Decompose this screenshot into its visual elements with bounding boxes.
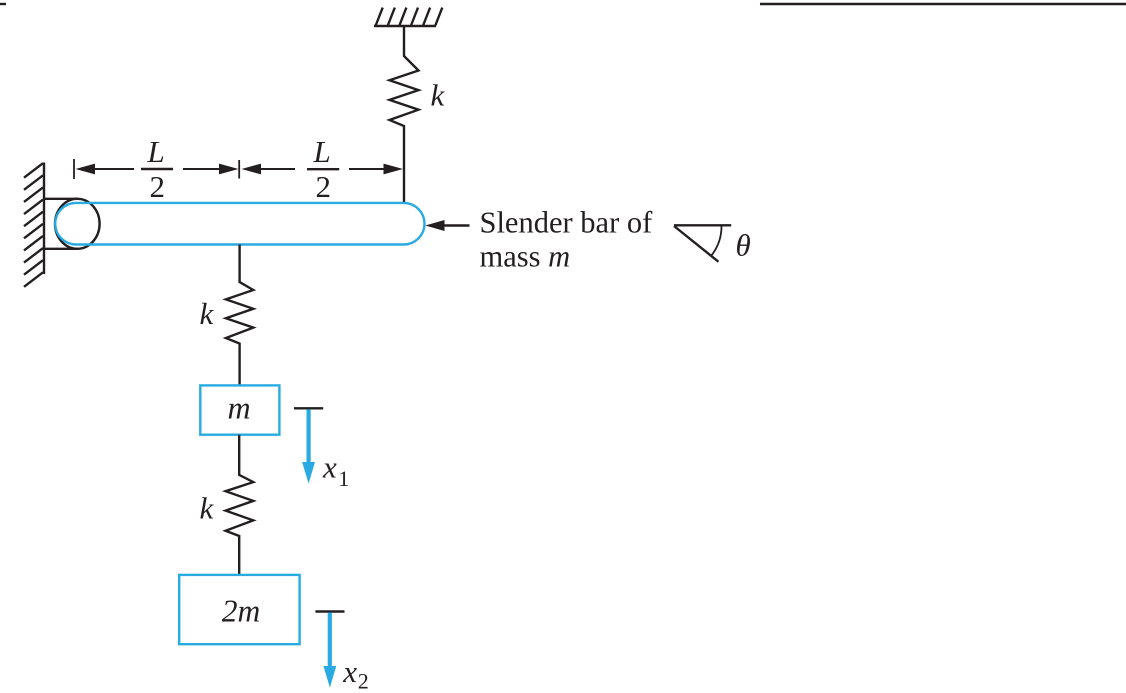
fraction bar L/2 (second) [307, 168, 339, 170]
spring k (lower, mass m to mass 2m) [226, 435, 254, 575]
svg-text:L: L [147, 134, 165, 169]
displacement arrow x2 (cyan) [323, 613, 336, 688]
dimension line segment [349, 168, 385, 170]
svg-text:1: 1 [338, 466, 349, 491]
svg-text:k: k [431, 78, 446, 113]
dimension middle tick [238, 160, 240, 179]
ceiling hatching [376, 8, 443, 26]
svg-text:m: m [228, 390, 251, 426]
angle arc [711, 226, 722, 256]
svg-text:k: k [200, 491, 215, 526]
pin bracket bottom line [43, 248, 78, 250]
dimension left tick [73, 159, 75, 179]
dimension arrow right (first span) [219, 164, 239, 175]
displacement arrow x1 (cyan) [302, 409, 315, 483]
page edge dash (top left) [0, 3, 6, 5]
pin bracket top line [43, 198, 78, 200]
svg-text:2: 2 [150, 169, 166, 204]
mass 2m box [179, 575, 299, 644]
dimension arrow right (second span, at spring line) [384, 164, 404, 175]
page header rule (top right) [760, 3, 1126, 5]
dimension line segment [183, 168, 220, 170]
spring k (middle, bar to mass m) [226, 245, 253, 386]
annotation arrow (points to bar right end) [425, 220, 444, 231]
svg-text:2: 2 [358, 669, 369, 693]
angle symbol horizontal line [674, 224, 731, 226]
spring k (top, ceiling to bar right end) [390, 26, 419, 202]
pin circle [55, 199, 100, 249]
datum line x2 [315, 610, 344, 612]
dimension arrow left (second span) [242, 164, 262, 175]
svg-text:k: k [200, 296, 215, 331]
angle symbol inclined line [674, 226, 718, 262]
svg-text:x: x [342, 654, 357, 689]
dimension line segment [94, 168, 134, 170]
svg-text:L: L [313, 134, 331, 169]
mass m box [200, 385, 279, 434]
svg-text:2m: 2m [222, 593, 260, 628]
ceiling support line [374, 25, 436, 28]
svg-text:Slender bar of: Slender bar of [480, 205, 654, 239]
svg-text:θ: θ [736, 228, 751, 263]
svg-text:x: x [322, 450, 337, 485]
svg-text:2: 2 [316, 169, 332, 204]
dimension line segment [260, 168, 295, 170]
fraction bar L/2 (first) [141, 168, 173, 170]
dimension arrow left (first span) [76, 164, 96, 175]
wall support line (left) [43, 163, 45, 275]
wall hatching [24, 163, 43, 287]
slender bar (stadium outline) [55, 203, 424, 245]
svg-text:mass m: mass m [480, 239, 571, 273]
datum line x1 [294, 407, 323, 409]
